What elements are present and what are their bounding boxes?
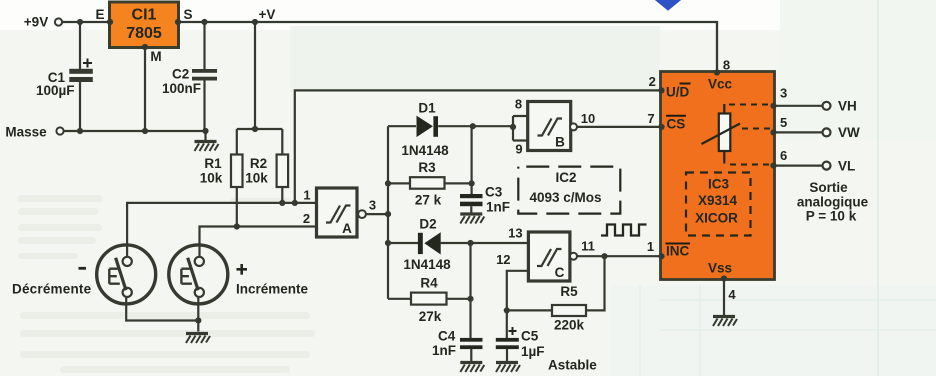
junction D1 C3 node [470,123,476,129]
potentiometer element inside IC3 [702,104,741,164]
svg-text:R5: R5 [560,284,578,299]
wire +V to R1 R2 [237,22,282,155]
junction R1R2 bracket [252,126,258,132]
gate A output bubble [358,210,366,218]
pin CS label IC3 [666,116,686,132]
svg-text:X9314: X9314 [698,193,738,208]
junction buttons common [195,317,201,323]
svg-text:1nF: 1nF [486,200,510,215]
wire CI1 M to Masse [144,48,146,132]
wire VH output pin 3 [775,99,857,114]
junction CI1 pin M [142,44,148,50]
svg-text:Sortie: Sortie [809,180,848,195]
junction IC3 pin 3 [770,103,776,109]
resistor R1 10k [200,155,243,188]
junction node A D2 [385,240,391,246]
junction IC3 pin 5 [770,129,776,135]
svg-text:P = 10 k: P = 10 k [806,209,857,224]
svg-text:CS: CS [667,117,686,132]
wire R5 branch [507,256,605,310]
svg-text:C: C [555,265,565,280]
svg-text:27 k: 27 k [415,193,442,208]
wire dashed pot bottom to pin 6 [730,164,772,166]
ground C3 [460,214,484,224]
ground C5 [496,363,520,373]
resistor R4 27k [411,276,447,325]
wire Masse rail [64,130,206,132]
wire R1 bottom [236,187,238,227]
svg-text:U/D: U/D [666,85,690,100]
svg-text:10k: 10k [245,171,268,186]
node +9V input terminal [24,15,62,30]
svg-text:8: 8 [723,58,730,73]
junction IC3 pin 7 [658,124,664,130]
junction +V C1 [77,19,83,25]
junction R5 output [601,253,607,259]
junction R5 C5 pin12 [504,307,510,313]
svg-text:INC: INC [666,244,690,259]
svg-text:2: 2 [303,211,310,226]
svg-text:10: 10 [581,111,595,126]
junction Masse C2 [202,128,208,134]
switch Incremente pushbutton [169,245,309,304]
svg-text:R3: R3 [418,160,436,175]
wire C2 top [203,22,205,69]
svg-text:R1: R1 [204,156,222,171]
svg-text:Décrémente: Décrémente [12,282,92,297]
svg-text:VW: VW [838,125,860,140]
svg-text:IC3: IC3 [708,177,730,192]
ground buttons [186,334,210,344]
wire C3 to ground [470,206,472,213]
junction gate B input [510,124,516,130]
svg-text:3: 3 [369,198,376,213]
svg-text:1N4148: 1N4148 [401,143,449,158]
wire Masse to ground [204,131,206,141]
junction R2 pin1 [279,200,285,206]
junction D2 C4 node [467,240,473,246]
pin INC label IC3 [666,244,691,259]
junction IC3 pin 1 [658,253,664,259]
node Sortie analogique label [797,180,869,224]
junction Masse M [142,128,148,134]
node blue marker triangle [653,0,684,11]
IC2 4093 dashed outline [518,167,620,214]
junction R1 pin2 [234,223,240,229]
svg-text:D2: D2 [419,217,436,232]
junction R4 C4 [467,296,473,302]
wire gate A pin 2 net [200,227,317,257]
junction +V C2 [201,19,207,25]
svg-text:10k: 10k [200,171,223,186]
svg-text:1: 1 [303,188,310,203]
wire buttons common to ground [126,297,198,332]
diode D2 1N4148 [403,217,451,273]
wire dashed wiper to pin 5 [742,128,772,130]
junction node A out [385,211,391,217]
svg-text:E: E [95,7,104,22]
svg-text:C4: C4 [438,329,456,344]
svg-text:27k: 27k [419,309,442,324]
ground IC3 Vss [713,317,737,327]
svg-text:4: 4 [728,287,736,302]
node square wave symbol [601,225,647,236]
junction Masse C1 [77,128,83,134]
capacitor C2 100nF [162,67,217,97]
svg-text:2: 2 [649,74,656,89]
junction IC3 pin 2 [658,87,664,93]
wire IC3 Vss pin 4 [723,280,725,316]
svg-text:+V: +V [259,7,276,22]
diode D1 1N4148 [401,101,449,159]
svg-text:1: 1 [647,239,654,254]
capacitor C5 1µF [496,327,545,359]
junction R3 C3 [469,180,475,186]
svg-text:Vcc: Vcc [708,77,733,92]
wire VL output pin 6 [775,159,856,174]
svg-text:D1: D1 [418,101,436,116]
junction U/D pin1 [292,200,298,206]
gate U1A 4093 Schmitt NAND A [317,188,358,237]
svg-text:Vss: Vss [708,261,732,276]
svg-text:6: 6 [780,148,787,163]
wire gate C pin 12 feedback [507,271,529,338]
svg-text:4093 c/Mos: 4093 c/Mos [529,190,601,205]
IC3 X9314 XICOR digital potentiometer body [661,72,775,280]
junction CI1 pin E [107,19,113,25]
capacitor C1 100µF [36,59,93,99]
ground C4 [460,363,484,373]
ground Masse [195,142,219,152]
wire C5 to ground [506,349,508,362]
svg-text:Astable: Astable [548,358,597,373]
wire U/D net to IC3 pin 2 [295,90,661,202]
svg-text:100µF: 100µF [36,83,75,98]
svg-text:VL: VL [838,159,855,174]
node Masse terminal [5,125,63,140]
wire D2 anode to gate C pin 13 [440,242,528,244]
svg-text:analogique: analogique [797,195,869,210]
capacitor C3 1nF [460,185,510,215]
gate B output bubble [570,123,577,130]
svg-text:IC2: IC2 [555,170,576,185]
switch Decremente pushbutton [12,245,156,304]
svg-text:C3: C3 [485,185,503,200]
svg-text:VH: VH [838,99,857,114]
junction +V R1R2 branch [252,19,258,25]
svg-text:CI1: CI1 [132,7,157,24]
svg-text:13: 13 [508,226,522,241]
svg-text:XICOR: XICOR [695,211,738,226]
svg-text:B: B [555,135,565,150]
svg-text:100nF: 100nF [162,81,201,96]
pin U/D label IC3 [666,84,691,100]
wire D1 cathode to gate B input [438,125,513,127]
wire R3 to C3 top [445,126,472,194]
junction IC3 pin 8 [714,69,720,75]
regulator CI1 7805 [110,2,179,48]
svg-text:C2: C2 [172,67,189,82]
wire gate A output node vertical [366,126,418,299]
wire R2 bottom [281,187,283,203]
svg-text:Masse: Masse [5,125,47,140]
wire C1 bottom [79,82,81,131]
svg-text:7: 7 [647,111,654,126]
svg-text:M: M [150,49,161,64]
junction node A R3 [385,180,391,186]
junction CI1 pin S [175,19,181,25]
svg-text:C5: C5 [521,329,539,344]
wire INC net gate C to IC3 pin 1 [577,255,661,257]
svg-text:Incrémente: Incrémente [236,282,309,297]
wire gate B input bracket pins 8 9 [513,116,528,141]
svg-text:1nF: 1nF [432,343,456,358]
wire C4 to ground [470,349,472,362]
svg-text:3: 3 [780,86,787,101]
wire +V supply rail [62,22,717,72]
svg-text:12: 12 [496,252,510,267]
capacitor C4 1nF [432,329,483,359]
resistor R2 10k [245,155,288,188]
junction IC3 pin 4 [721,275,727,281]
gate C output bubble [570,253,577,260]
svg-text:A: A [342,221,352,236]
wire dashed pot top to pin 3 [729,104,772,106]
junction IC3 pin 6 [770,163,776,169]
svg-text:1µF: 1µF [521,344,545,359]
svg-text:9: 9 [515,142,522,157]
svg-text:11: 11 [581,239,595,254]
gate U1C 4093 Schmitt NAND C [528,232,570,281]
wire VW output pin 5 [775,125,861,140]
wire R4 to C4 top [447,243,471,338]
svg-text:R4: R4 [420,276,438,291]
svg-text:R2: R2 [250,156,267,171]
wire C2 bottom [203,81,205,132]
svg-text:7805: 7805 [126,25,162,42]
wire CS net gate B to IC3 pin 7 [577,126,661,128]
resistor R5 220k [552,284,586,333]
svg-text:8: 8 [515,97,522,112]
resistor R3 27k [410,160,445,208]
svg-text:S: S [183,7,192,22]
svg-text:+9V: +9V [24,15,48,30]
svg-text:5: 5 [780,115,787,130]
wire C1 top [79,22,81,69]
wire gate A pin 1 net [127,203,316,257]
gate U1B 4093 Schmitt NAND B [528,102,571,151]
IC3 name dashed box [686,173,751,236]
svg-text:1N4148: 1N4148 [403,257,451,272]
svg-text:220k: 220k [554,318,585,333]
